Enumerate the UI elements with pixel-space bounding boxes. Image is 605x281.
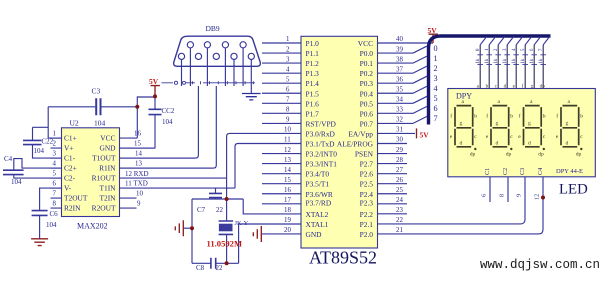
- svg-text:C2+: C2+: [64, 163, 77, 172]
- svg-text:dp: dp: [538, 151, 544, 157]
- svg-text:www.dqjsw.com.cn: www.dqjsw.com.cn: [480, 258, 600, 272]
- mcu U1 AT89S52 body: [301, 36, 378, 267]
- svg-text:1: 1: [434, 54, 438, 63]
- svg-text:11: 11: [284, 137, 291, 144]
- svg-text:1k: 1k: [503, 58, 508, 63]
- svg-text:C2: C2: [502, 168, 509, 175]
- svg-text:C1: C1: [484, 168, 491, 175]
- svg-text:12 RXD: 12 RXD: [125, 170, 149, 178]
- svg-text:P3.4/T0: P3.4/T0: [306, 170, 330, 179]
- svg-text:5V: 5V: [149, 77, 159, 86]
- capacitor C3: [48, 87, 137, 128]
- svg-text:P2.5: P2.5: [360, 180, 374, 189]
- svg-text:P0.1: P0.1: [360, 59, 374, 68]
- svg-text:104: 104: [162, 118, 173, 126]
- capacitor C22: [23, 127, 62, 158]
- svg-text:P3.6/WR: P3.6/WR: [306, 190, 333, 199]
- svg-text:5: 5: [434, 94, 438, 103]
- svg-text:T2IN: T2IN: [99, 193, 116, 202]
- svg-text:14: 14: [284, 167, 291, 174]
- svg-text:4: 4: [53, 161, 57, 168]
- wire T1OUT to DB9: [120, 86, 199, 158]
- svg-text:P2.3: P2.3: [360, 199, 374, 208]
- wire C1+ node: [33, 107, 62, 138]
- svg-text:DPY 44-E: DPY 44-E: [556, 168, 583, 175]
- wire display common 3 to P2.1: [378, 177, 526, 224]
- svg-text:GND: GND: [99, 143, 116, 152]
- svg-text:36: 36: [396, 76, 403, 83]
- svg-text:dp: dp: [506, 151, 512, 157]
- display common pin labels C1-C4: [484, 168, 544, 175]
- digit 2: [486, 99, 514, 157]
- svg-text:P0.5: P0.5: [360, 99, 374, 108]
- svg-text:P2.6: P2.6: [360, 170, 374, 179]
- svg-text:29: 29: [396, 147, 403, 154]
- svg-text:f: f: [519, 113, 521, 120]
- digit 1: [450, 99, 478, 157]
- ground C6: [31, 239, 48, 246]
- wire DB9 pin drops: [182, 48, 252, 86]
- svg-text:1k: 1k: [530, 58, 535, 63]
- crystal JK-Y: [219, 220, 249, 263]
- svg-text:4: 4: [434, 84, 438, 93]
- svg-text:P0.0: P0.0: [360, 49, 374, 58]
- svg-text:P0.4: P0.4: [360, 89, 374, 98]
- svg-text:1k: 1k: [512, 58, 517, 63]
- svg-text:P3.1/TxD: P3.1/TxD: [306, 140, 336, 149]
- wire crystal loop: [192, 199, 301, 263]
- svg-text:P2.4: P2.4: [360, 190, 374, 199]
- svg-text:V-: V-: [64, 183, 72, 192]
- U2 right pin labels: [92, 133, 116, 212]
- svg-text:C6: C6: [50, 210, 59, 218]
- svg-text:27: 27: [396, 167, 403, 174]
- svg-text:31: 31: [396, 127, 403, 134]
- svg-text:12: 12: [284, 147, 291, 154]
- svg-text:10: 10: [284, 127, 291, 134]
- svg-text:DB9: DB9: [206, 24, 220, 33]
- svg-text:5: 5: [286, 76, 290, 83]
- svg-text:d: d: [566, 141, 569, 147]
- svg-text:b: b: [580, 114, 583, 120]
- net labels 0-7: [434, 44, 438, 123]
- power 5V (MAX/CC2): [149, 77, 160, 96]
- svg-text:34: 34: [396, 97, 403, 104]
- svg-text:14: 14: [135, 151, 142, 158]
- svg-text:XTAL2: XTAL2: [306, 210, 329, 219]
- svg-text:1k: 1k: [521, 58, 526, 63]
- svg-text:6: 6: [286, 86, 290, 93]
- svg-text:16: 16: [134, 131, 141, 138]
- svg-text:7: 7: [434, 114, 438, 123]
- svg-text:VCC: VCC: [358, 39, 373, 48]
- svg-text:JK-Y: JK-Y: [235, 220, 249, 227]
- svg-text:CC2: CC2: [162, 107, 175, 115]
- svg-text:39: 39: [396, 46, 403, 53]
- svg-text:C1+: C1+: [64, 133, 77, 142]
- svg-text:V+: V+: [64, 143, 74, 152]
- U1 pin stubs right: [378, 36, 434, 234]
- svg-text:104: 104: [11, 178, 22, 186]
- connector DB9: [174, 24, 261, 66]
- svg-text:1k: 1k: [485, 58, 490, 63]
- power 5V (U1 pin31 EA): [417, 128, 430, 139]
- svg-text:d: d: [460, 141, 463, 147]
- svg-text:g: g: [496, 120, 499, 126]
- svg-text:AT89S52: AT89S52: [309, 248, 377, 268]
- svg-text:C3: C3: [92, 87, 101, 96]
- display DPY 44-E: [448, 89, 596, 177]
- svg-text:3: 3: [286, 56, 290, 63]
- svg-text:C2-: C2-: [64, 173, 76, 182]
- svg-text:104: 104: [94, 119, 106, 128]
- svg-text:P2.7: P2.7: [360, 160, 374, 169]
- wire TXD net: [235, 144, 301, 189]
- svg-text:0: 0: [434, 44, 438, 53]
- digit 4: [556, 99, 584, 157]
- svg-text:8: 8: [499, 194, 506, 197]
- svg-text:dp: dp: [576, 151, 582, 157]
- svg-text:13: 13: [284, 157, 291, 164]
- svg-text:21: 21: [396, 227, 403, 234]
- svg-text:104: 104: [46, 221, 57, 229]
- svg-text:1: 1: [286, 36, 290, 43]
- svg-text:P1.0: P1.0: [306, 39, 320, 48]
- svg-text:9: 9: [137, 201, 141, 208]
- wire display common 2: [507, 177, 509, 202]
- svg-text:8: 8: [286, 107, 290, 114]
- svg-text:C1-: C1-: [64, 153, 76, 162]
- svg-text:4: 4: [286, 66, 290, 73]
- svg-text:P3.0/RxD: P3.0/RxD: [306, 129, 336, 138]
- node junction dots: [135, 94, 545, 265]
- svg-text:3: 3: [53, 151, 57, 158]
- svg-text:P3.3/INT1: P3.3/INT1: [306, 160, 338, 169]
- svg-text:19: 19: [284, 217, 291, 224]
- op-amp U2 MAX202 body: [62, 119, 120, 231]
- ground DB9 pin5: [242, 86, 261, 100]
- svg-text:16: 16: [284, 187, 291, 194]
- svg-text:33: 33: [396, 107, 403, 114]
- net labels a-dp: [477, 82, 546, 89]
- svg-text:7: 7: [286, 97, 290, 104]
- svg-text:10: 10: [136, 191, 143, 198]
- svg-text:6: 6: [481, 194, 488, 197]
- svg-text:g: g: [528, 120, 531, 126]
- svg-text:22: 22: [396, 217, 403, 224]
- svg-text:15: 15: [134, 141, 141, 148]
- svg-text:28: 28: [396, 157, 403, 164]
- svg-text:P3.7/RD: P3.7/RD: [306, 199, 332, 208]
- U1 right labels: [337, 39, 374, 239]
- svg-text:104: 104: [34, 147, 45, 155]
- svg-text:g: g: [460, 120, 463, 126]
- wire display common 1: [489, 177, 491, 202]
- svg-text:30: 30: [396, 137, 403, 144]
- svg-text:P1.7: P1.7: [306, 109, 320, 118]
- U2 pin stubs left: [51, 131, 62, 209]
- capacitor C4: [3, 155, 62, 186]
- svg-text:3: 3: [434, 74, 438, 83]
- svg-text:1: 1: [53, 131, 57, 138]
- svg-text:22: 22: [216, 206, 224, 214]
- capacitor CC2: [120, 96, 175, 148]
- svg-text:C3: C3: [519, 168, 526, 175]
- svg-text:2: 2: [434, 64, 438, 73]
- U2 pin stubs right: [120, 131, 236, 209]
- power 5V (U1 pin40): [428, 26, 438, 43]
- svg-text:ALE/PROG: ALE/PROG: [337, 140, 374, 149]
- svg-text:22: 22: [216, 264, 224, 272]
- svg-text:11.0592M: 11.0592M: [207, 239, 243, 249]
- svg-text:5V: 5V: [420, 131, 430, 140]
- svg-text:LED: LED: [559, 182, 588, 198]
- svg-text:6: 6: [53, 181, 57, 188]
- svg-text:f: f: [486, 113, 488, 120]
- bus entries P0.0-P0.7: [413, 46, 427, 123]
- U2 left pin labels: [64, 133, 88, 212]
- svg-text:P3.5/T1: P3.5/T1: [306, 180, 330, 189]
- svg-text:VCC: VCC: [100, 133, 115, 142]
- svg-text:b: b: [510, 114, 513, 120]
- svg-text:EA/Vpp: EA/Vpp: [348, 129, 373, 138]
- svg-text:2: 2: [286, 46, 290, 53]
- svg-text:g: g: [566, 120, 569, 126]
- capacitor C7: [197, 188, 224, 214]
- bus P0: [429, 36, 551, 125]
- svg-text:20: 20: [284, 227, 291, 234]
- svg-text:d: d: [496, 141, 499, 147]
- svg-text:P2.0: P2.0: [360, 230, 374, 239]
- svg-text:12: 12: [534, 194, 541, 200]
- svg-text:9: 9: [516, 194, 523, 197]
- svg-text:f: f: [556, 113, 558, 120]
- capacitor C6: [32, 188, 62, 239]
- resistor network segment lines: [476, 37, 550, 89]
- svg-text:38: 38: [396, 56, 403, 63]
- wire RXD to crystal top: [226, 178, 228, 221]
- svg-text:37: 37: [396, 66, 403, 73]
- svg-text:32: 32: [396, 117, 403, 124]
- svg-text:1k: 1k: [539, 58, 544, 63]
- svg-text:T1IN: T1IN: [99, 183, 116, 192]
- svg-text:P3.2/INT0: P3.2/INT0: [306, 150, 338, 159]
- svg-text:dp: dp: [470, 151, 476, 157]
- svg-text:40: 40: [396, 36, 403, 43]
- svg-text:25: 25: [396, 187, 403, 194]
- digit 3: [518, 99, 546, 157]
- svg-text:P1.4: P1.4: [306, 79, 320, 88]
- svg-text:C4: C4: [4, 155, 13, 163]
- svg-text:DPY: DPY: [456, 92, 472, 101]
- svg-text:f: f: [450, 113, 452, 120]
- svg-text:P1.5: P1.5: [306, 89, 320, 98]
- svg-text:PSEN: PSEN: [355, 150, 374, 159]
- svg-text:MAX202: MAX202: [77, 222, 108, 231]
- svg-text:P0.7: P0.7: [360, 119, 374, 128]
- svg-text:P1.1: P1.1: [306, 49, 320, 58]
- svg-text:T2OUT: T2OUT: [64, 193, 88, 202]
- svg-text:R1IN: R1IN: [99, 163, 116, 172]
- svg-text:23: 23: [396, 207, 403, 214]
- svg-text:R2IN: R2IN: [64, 203, 81, 212]
- wire VCC node: [137, 97, 155, 138]
- svg-text:P0.6: P0.6: [360, 109, 374, 118]
- svg-text:18: 18: [284, 207, 291, 214]
- svg-text:C7: C7: [197, 206, 206, 214]
- svg-text:C4: C4: [537, 168, 544, 175]
- ground crystal: [175, 220, 192, 236]
- svg-text:P0.2: P0.2: [360, 69, 374, 78]
- svg-text:P2.2: P2.2: [360, 210, 374, 219]
- svg-text:GND: GND: [306, 230, 323, 239]
- svg-text:26: 26: [396, 177, 403, 184]
- svg-text:6: 6: [434, 104, 438, 113]
- capacitor C8: [196, 258, 223, 272]
- svg-text:11 TXD: 11 TXD: [125, 180, 148, 188]
- svg-text:13: 13: [135, 161, 142, 168]
- connector contact marks: [162, 81, 256, 84]
- svg-text:b: b: [474, 114, 477, 120]
- U1 left labels: [306, 39, 338, 239]
- svg-text:P1.6: P1.6: [306, 99, 320, 108]
- svg-text:P1.3: P1.3: [306, 69, 320, 78]
- svg-text:P2.1: P2.1: [360, 220, 374, 229]
- wire display common 4 to P2.0: [378, 177, 544, 234]
- svg-text:17: 17: [284, 197, 291, 204]
- svg-text:P0.3: P0.3: [360, 79, 374, 88]
- wire R1IN to DB9: [120, 86, 217, 168]
- svg-text:1k: 1k: [494, 58, 499, 63]
- wire RXD net: [227, 133, 301, 178]
- svg-text:9: 9: [286, 117, 290, 124]
- svg-text:b: b: [543, 114, 546, 120]
- svg-text:5: 5: [53, 171, 57, 178]
- svg-text:15: 15: [284, 177, 291, 184]
- svg-text:1k: 1k: [476, 58, 481, 63]
- svg-text:24: 24: [396, 197, 403, 204]
- svg-text:C8: C8: [196, 264, 205, 272]
- ground U1 GND pin20: [253, 226, 301, 242]
- svg-text:R2OUT: R2OUT: [92, 203, 116, 212]
- svg-text:7: 7: [53, 191, 57, 198]
- svg-text:2: 2: [53, 141, 57, 148]
- svg-text:U2: U2: [70, 119, 79, 128]
- svg-text:35: 35: [396, 86, 403, 93]
- svg-text:RST/VPD: RST/VPD: [306, 119, 337, 128]
- U1 pin stubs left: [262, 36, 301, 234]
- svg-text:P1.2: P1.2: [306, 59, 320, 68]
- svg-text:T1OUT: T1OUT: [92, 153, 116, 162]
- svg-text:8: 8: [53, 201, 57, 208]
- svg-text:XTAL1: XTAL1: [306, 220, 329, 229]
- display pin numbers: [481, 194, 541, 200]
- svg-text:d: d: [528, 141, 531, 147]
- svg-text:R1OUT: R1OUT: [92, 173, 116, 182]
